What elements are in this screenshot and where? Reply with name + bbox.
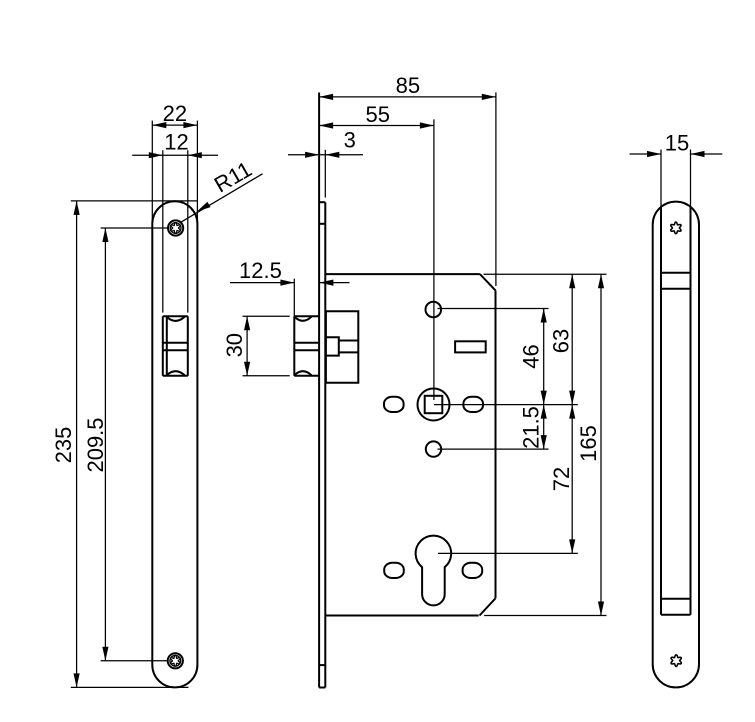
dimension 15 <box>630 130 723 157</box>
latch top concave arc <box>295 317 312 321</box>
insert bottom line <box>661 614 691 616</box>
strip top cap <box>319 201 325 203</box>
latch housing box <box>326 311 358 383</box>
latch middle band lower line <box>163 349 188 351</box>
top screw circle <box>168 220 183 235</box>
svg-text:63: 63 <box>549 329 574 353</box>
latch top edge <box>294 315 319 317</box>
bottom screw recess circle <box>170 655 181 666</box>
dimension 12 <box>132 129 218 312</box>
svg-text:22: 22 <box>163 101 187 126</box>
latch top concave arc <box>167 317 185 321</box>
svg-text:12: 12 <box>164 129 188 154</box>
latch middle band upper line <box>163 342 188 344</box>
body bottom extension line <box>484 615 606 617</box>
lower hole circle <box>426 441 441 456</box>
lock body right edge <box>495 290 497 598</box>
svg-text:165: 165 <box>576 425 601 462</box>
dimension 209.5 <box>83 228 168 661</box>
latch cutout bottom edge <box>163 375 188 377</box>
plate outline <box>653 202 699 688</box>
latch tip edge <box>293 316 295 376</box>
spindle extension line <box>434 404 578 406</box>
svg-text:209.5: 209.5 <box>83 417 108 472</box>
dimension 85 <box>319 73 496 286</box>
cylinder extension line <box>438 552 578 554</box>
svg-text:3: 3 <box>344 128 356 153</box>
cylinder right oval <box>463 563 483 578</box>
svg-text:85: 85 <box>396 73 420 98</box>
svg-text:55: 55 <box>366 102 390 127</box>
svg-text:235: 235 <box>51 427 76 464</box>
top hole circle <box>426 302 442 318</box>
faceplate edge strip right extension <box>324 150 326 198</box>
lower hole extension line <box>438 448 549 450</box>
dimension 235 <box>51 201 197 688</box>
latch spring box <box>326 337 339 355</box>
spring rod top line <box>339 340 359 342</box>
bottom screw circle <box>168 653 183 668</box>
faceplate edge strip left line <box>318 93 320 688</box>
dimension 72 <box>549 405 575 554</box>
lock body bottom chamfer <box>480 598 496 615</box>
dimension 3 <box>288 128 363 158</box>
strip bottom cap <box>319 687 325 689</box>
latch cutout left edge <box>162 316 164 376</box>
svg-text:72: 72 <box>549 467 574 491</box>
lock body bottom edge <box>325 615 478 617</box>
latch cutout top edge <box>163 315 188 317</box>
top screw recess circle <box>170 223 181 234</box>
euro cylinder profile <box>416 536 452 606</box>
svg-text:15: 15 <box>665 130 689 155</box>
cylinder left oval <box>384 563 404 578</box>
latch bottom concave arc <box>295 371 312 375</box>
insert right edge <box>690 207 692 615</box>
bottom torx star <box>671 655 681 667</box>
lock body top chamfer <box>480 274 496 290</box>
svg-text:21.5: 21.5 <box>519 406 544 449</box>
inner right extension <box>690 150 692 207</box>
svg-text:12.5: 12.5 <box>239 258 282 283</box>
top hole extension line <box>438 308 549 310</box>
inner left extension <box>660 150 662 207</box>
dimension 165 <box>576 274 604 615</box>
top torx star <box>671 222 681 234</box>
slot rectangle <box>455 341 486 352</box>
faceplate outline <box>152 201 197 687</box>
insert third line <box>661 598 691 600</box>
center extension line <box>433 119 435 400</box>
dimension 55 <box>319 102 434 129</box>
latch bottom edge <box>294 375 319 377</box>
latch bottom concave arc <box>167 371 185 375</box>
strip upper tick <box>319 223 325 225</box>
top screw torx star <box>171 223 181 234</box>
dimension 21.5 <box>519 405 547 450</box>
dimension 12.5 <box>230 258 350 286</box>
spring rod bottom line <box>339 351 359 353</box>
spindle circle <box>418 389 450 421</box>
dimension 22 <box>152 101 197 223</box>
insert left edge <box>660 207 662 615</box>
svg-text:30: 30 <box>222 333 247 357</box>
radius leader R11 <box>181 156 263 222</box>
latch band upper line <box>294 342 319 344</box>
bottom screw torx star <box>171 655 181 666</box>
latch cutout right edge <box>187 316 189 376</box>
spindle square <box>425 396 443 413</box>
dimension 30 <box>222 316 290 376</box>
body top extension line <box>484 273 607 275</box>
spindle left oval <box>384 397 404 412</box>
insert second line <box>661 288 691 290</box>
svg-text:46: 46 <box>519 344 544 368</box>
spindle right oval <box>463 397 483 412</box>
strip lower tick <box>319 664 325 666</box>
latch bolt left edge <box>166 316 168 376</box>
latch band lower line <box>294 349 319 351</box>
lock body top edge <box>325 273 480 275</box>
faceplate edge strip right line <box>324 202 326 687</box>
latch tip extension <box>293 279 295 317</box>
insert top line <box>661 272 691 274</box>
dimension 46 <box>519 309 547 405</box>
dimension 63 <box>549 274 576 404</box>
